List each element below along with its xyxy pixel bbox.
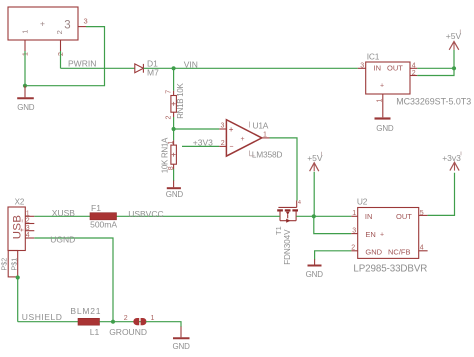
op-amp U1A <box>226 120 282 160</box>
wire junction down to EN <box>314 216 352 233</box>
connector PWRIN jack <box>8 7 78 40</box>
svg-text:5: 5 <box>420 210 424 217</box>
pin 3 (IC1 IN) <box>358 62 366 69</box>
svg-text:IN: IN <box>374 63 382 72</box>
svg-text:PWRIN: PWRIN <box>68 59 96 69</box>
svg-text:10K RN1A: 10K RN1A <box>161 137 170 173</box>
ground GND (IC1) <box>375 119 394 133</box>
svg-text:3: 3 <box>84 17 88 26</box>
svg-text:+: + <box>380 232 384 239</box>
node junction VIN/RN1B <box>172 66 176 70</box>
pin 3 (jack) <box>78 17 88 27</box>
wire jack pin1 down <box>24 51 26 86</box>
svg-text:−: − <box>229 144 233 151</box>
wire shield down <box>17 278 19 322</box>
svg-text:+: + <box>241 136 245 143</box>
svg-text:1: 1 <box>22 52 29 56</box>
pin 4 (U2 NC/FB) <box>419 245 428 252</box>
svg-text:2: 2 <box>26 218 30 225</box>
svg-text:IC1: IC1 <box>367 51 380 61</box>
svg-text:500mA: 500mA <box>90 219 117 229</box>
svg-text:U2: U2 <box>357 196 368 206</box>
svg-text:2: 2 <box>55 30 64 34</box>
svg-text:1: 1 <box>21 30 30 34</box>
wire RN1A to ground <box>173 169 175 181</box>
wire VIN to RN1B <box>173 68 175 91</box>
svg-text:GND: GND <box>166 190 184 199</box>
wire USBVCC to T1 <box>117 215 281 217</box>
svg-text:USB: USB <box>11 215 23 240</box>
svg-text:1: 1 <box>263 132 267 139</box>
svg-text:P$2: P$2 <box>0 258 9 271</box>
wire U2 OUT to +3v3 <box>428 173 455 216</box>
pin 2 (U2 GND) <box>351 245 357 252</box>
svg-text:MC33269ST-5.0T3: MC33269ST-5.0T3 <box>396 96 471 106</box>
node junction pin1/pin3 <box>23 84 27 88</box>
transistor T1 FDN304V <box>274 200 301 265</box>
svg-text:4: 4 <box>26 232 30 239</box>
inductor L1 BLM21 <box>70 306 101 337</box>
svg-text:2: 2 <box>412 70 416 77</box>
svg-text:1: 1 <box>352 210 356 217</box>
svg-text:4: 4 <box>412 62 416 69</box>
svg-text:7: 7 <box>165 90 172 94</box>
wire jack pin2 down <box>60 51 62 68</box>
wire jumper to ground <box>146 322 181 327</box>
svg-text:T1: T1 <box>274 226 283 235</box>
pin 5 (U2 OUT) <box>419 210 428 217</box>
svg-text:X2: X2 <box>15 197 25 206</box>
resistor RN1B <box>165 82 185 119</box>
jumper GROUND pad 2 <box>124 315 139 325</box>
svg-text:4: 4 <box>420 245 424 252</box>
svg-text:GND: GND <box>365 248 382 257</box>
svg-text:3: 3 <box>64 20 70 32</box>
supply +3v3 <box>442 152 461 171</box>
svg-text:2: 2 <box>351 245 355 252</box>
node junction shield <box>16 275 20 279</box>
wire T1 drain to U2 <box>296 215 351 217</box>
pin 1 (jack) <box>22 40 29 56</box>
wire U2 GND to ground <box>315 251 352 260</box>
svg-text:1: 1 <box>151 315 155 322</box>
wire RN1B to junction <box>173 117 175 140</box>
svg-text:+: + <box>229 125 234 134</box>
fuse F1 500mA <box>90 203 117 229</box>
svg-text:M7: M7 <box>147 68 159 78</box>
wire junction to +5V arrow <box>313 172 315 217</box>
pin 3 (X2) <box>25 225 34 232</box>
svg-text:F1: F1 <box>91 203 101 213</box>
svg-text:GND: GND <box>376 124 394 133</box>
ground GND (jack) <box>17 86 35 112</box>
svg-text:VIN: VIN <box>184 60 198 70</box>
wire USHIELD <box>18 321 78 323</box>
svg-text:BLM21: BLM21 <box>70 306 101 316</box>
svg-text:P$1: P$1 <box>10 258 19 271</box>
svg-text:3: 3 <box>26 225 30 232</box>
connector X2 USB <box>0 197 26 277</box>
pin 2 (X2) <box>25 218 34 225</box>
svg-text:+: + <box>40 19 45 29</box>
svg-text:USBVCC: USBVCC <box>128 209 163 219</box>
wire XUSB <box>34 215 90 217</box>
ground GND (shield) <box>173 338 191 351</box>
node junction +5V <box>452 66 456 70</box>
pin 2 (IC1) <box>410 70 417 77</box>
svg-text:OUT: OUT <box>387 63 403 72</box>
pin 1 (IC1 GND) <box>376 94 383 117</box>
pin 3 (opamp) <box>219 123 226 130</box>
pin 1 (opamp output) <box>262 132 270 139</box>
svg-text:1: 1 <box>376 99 383 103</box>
pin 3 (U2 EN) <box>351 227 357 234</box>
node junction UGND/shield row <box>111 320 115 324</box>
svg-text:EN: EN <box>365 230 375 239</box>
wire VIN <box>143 67 357 69</box>
svg-text:GND: GND <box>17 103 35 112</box>
svg-text:OUT: OUT <box>396 212 412 221</box>
svg-text:LP2985-33DBVR: LP2985-33DBVR <box>353 263 427 274</box>
node junction divider <box>172 127 176 131</box>
resistor RN1A <box>161 137 177 173</box>
ground GND (U2) <box>306 266 324 280</box>
svg-text:GROUND: GROUND <box>109 327 147 337</box>
svg-text:+5V: +5V <box>446 31 462 41</box>
svg-text:L1: L1 <box>90 327 100 337</box>
svg-text:U1A: U1A <box>253 120 269 130</box>
supply +5V (IC1) <box>446 30 462 50</box>
svg-text:1: 1 <box>26 210 30 217</box>
svg-text:4: 4 <box>298 200 301 206</box>
wire IC1 pin4 to +5V <box>417 67 454 69</box>
pin 4 (X2) <box>25 232 34 239</box>
svg-text:+5V: +5V <box>307 153 323 163</box>
svg-text:LM358D: LM358D <box>252 149 283 159</box>
pin 1 (U2 IN) <box>351 210 357 217</box>
svg-text:3: 3 <box>221 123 225 130</box>
svg-text:2: 2 <box>221 140 225 147</box>
svg-text:XUSB: XUSB <box>52 208 75 218</box>
pin 2 (opamp) <box>219 140 226 147</box>
wire L1 to jumper <box>100 321 146 323</box>
svg-text:RN1B 10K: RN1B 10K <box>176 82 185 118</box>
wire junction to opamp pin3 <box>174 128 220 130</box>
svg-text:GND: GND <box>306 270 324 279</box>
node junction +5V/T1 <box>312 214 316 218</box>
svg-text:2: 2 <box>165 116 172 120</box>
pin 4 (IC1 OUT) <box>410 62 417 69</box>
svg-text:FDN304V: FDN304V <box>283 229 292 265</box>
svg-text:3: 3 <box>352 227 356 234</box>
svg-text:+3v3: +3v3 <box>442 153 461 163</box>
regulator IC1 <box>366 51 472 106</box>
wire PWRIN <box>61 67 135 69</box>
svg-text:2: 2 <box>58 52 65 56</box>
svg-text:2: 2 <box>124 315 128 322</box>
pin 1 (X2) <box>25 210 34 217</box>
wire IC1 pin2 to +5V <box>417 50 454 76</box>
pin 2 (jack) <box>58 40 65 56</box>
svg-text:GND: GND <box>173 342 191 351</box>
supply +5V (T1) <box>307 152 323 171</box>
svg-text:USHIELD: USHIELD <box>22 312 63 322</box>
diode D1 <box>135 59 159 78</box>
ground GND (RN1A) <box>166 188 184 199</box>
net +3V3 stub wire <box>182 145 219 147</box>
svg-text:UGND: UGND <box>50 235 75 245</box>
wire UGND <box>34 238 113 322</box>
svg-text:+: + <box>380 83 384 90</box>
wire opamp output to gate <box>270 138 298 201</box>
svg-text:+3V3: +3V3 <box>193 137 213 147</box>
wire jack pin3 loop <box>25 27 105 86</box>
svg-text:3: 3 <box>360 62 364 69</box>
svg-text:IN: IN <box>365 212 373 221</box>
jumper GROUND pad 1 <box>109 315 154 337</box>
regulator U2 <box>353 196 427 274</box>
svg-text:NC/FB: NC/FB <box>388 248 411 257</box>
